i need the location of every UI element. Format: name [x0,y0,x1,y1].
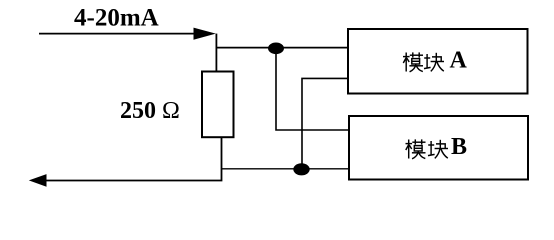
svg-text:250 Ω: 250 Ω [120,98,180,124]
svg-text:B: B [451,134,467,160]
svg-text:4-20mA: 4-20mA [74,5,159,32]
svg-text:A: A [450,48,468,74]
